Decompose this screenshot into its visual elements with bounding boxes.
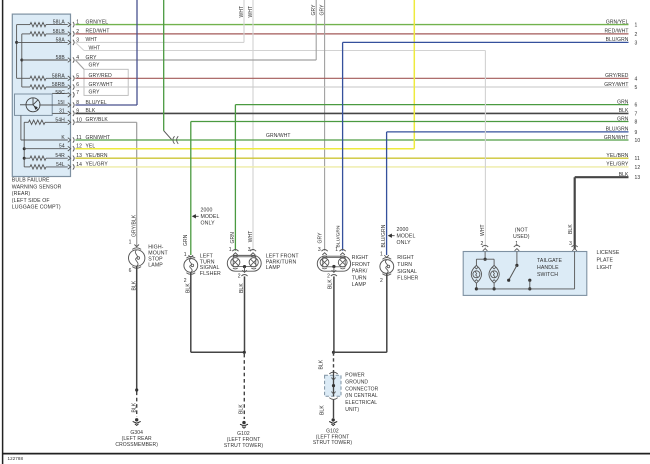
wire GRY vertical (x324.6) top to right lamp	[324, 0, 326, 251]
svg-text:BLK: BLK	[318, 359, 324, 369]
svg-text:13: 13	[635, 175, 641, 181]
svg-text:POWER: POWER	[345, 373, 365, 379]
wire 31 from transistor	[52, 112, 68, 114]
svg-text:GRY/RED: GRY/RED	[605, 73, 629, 79]
svg-text:SIGNAL: SIGNAL	[397, 269, 417, 275]
svg-text:UNIT): UNIT)	[345, 407, 359, 413]
svg-text:BLU/YEL: BLU/YEL	[86, 100, 107, 106]
wire GRY/BLK (pin10)	[75, 121, 136, 123]
svg-text:ELECTRICAL: ELECTRICAL	[345, 400, 377, 406]
resistor R-54L	[24, 166, 30, 168]
svg-text:7: 7	[76, 90, 79, 96]
svg-text:GRN: GRN	[183, 234, 189, 246]
svg-text:BLU/GRN: BLU/GRN	[381, 224, 387, 247]
svg-text:11: 11	[635, 156, 641, 162]
svg-text:BLK: BLK	[186, 283, 192, 293]
wire 58C from transistor	[52, 92, 68, 94]
wire BLK (edge 13) to license plate light	[575, 176, 629, 178]
license lamp internal wiring	[484, 252, 486, 260]
svg-text:STRUT TOWER): STRUT TOWER)	[313, 440, 352, 446]
svg-text:122788: 122788	[8, 456, 24, 461]
svg-text:BLK: BLK	[238, 404, 244, 414]
svg-text:58A: 58A	[56, 37, 66, 43]
svg-text:LAMP: LAMP	[266, 265, 281, 271]
svg-text:2: 2	[327, 274, 330, 280]
svg-text:CROSSMEMBER): CROSSMEMBER)	[115, 442, 158, 448]
wire 54	[24, 148, 68, 150]
svg-text:WHT: WHT	[86, 37, 98, 43]
resistor R-58LB	[22, 33, 30, 35]
svg-text:1: 1	[635, 23, 638, 29]
wire BLK connector to G102	[333, 400, 335, 419]
svg-text:58LA: 58LA	[53, 20, 66, 26]
svg-text:8: 8	[635, 120, 638, 126]
svg-text:2: 2	[184, 278, 187, 284]
wire BLK left flasher down	[190, 273, 192, 353]
transistor Q1	[26, 98, 40, 112]
svg-text:CONNECTOR: CONNECTOR	[345, 386, 378, 392]
wire BLU/GRN (edge 9) to right turn signal flasher	[387, 131, 629, 133]
svg-text:2000: 2000	[201, 208, 213, 214]
svg-text:7: 7	[635, 111, 638, 117]
wire YEL (pin12)	[75, 148, 414, 150]
svg-text:TAILGATE: TAILGATE	[537, 258, 563, 264]
svg-text:BLU/GRN: BLU/GRN	[606, 127, 629, 133]
wire WHT vertical to license plate light	[484, 51, 486, 250]
svg-text:MODEL: MODEL	[397, 234, 416, 240]
svg-text:TURN: TURN	[397, 262, 412, 268]
wire K from transistor bottom	[20, 115, 22, 140]
svg-text:12: 12	[635, 165, 641, 171]
svg-text:GRY: GRY	[86, 55, 98, 61]
svg-text:GRN/WHT: GRN/WHT	[86, 135, 111, 141]
wire WHT branch (to license plate light)	[75, 42, 84, 50]
svg-text:(LEFT SIDE OF: (LEFT SIDE OF	[12, 198, 50, 204]
resistor R-58LA	[17, 24, 30, 26]
wire YEL/GRY (pin14 to edge 12)	[75, 166, 628, 168]
svg-text:54H: 54H	[55, 117, 65, 123]
wire GRY/WHT (pin6 to edge 5)	[75, 86, 628, 88]
svg-text:LICENSE: LICENSE	[597, 250, 620, 256]
svg-text:GRY/WHT: GRY/WHT	[89, 82, 113, 88]
svg-text:31: 31	[59, 108, 65, 114]
wire BLK (pin9 to edge 7)	[75, 112, 628, 114]
node: bus3/54 junction	[23, 147, 26, 150]
svg-text:2: 2	[635, 32, 638, 38]
svg-text:(NOT: (NOT	[515, 227, 529, 233]
svg-text:54: 54	[59, 144, 65, 150]
resistor R-54R	[24, 157, 30, 159]
svg-text:1: 1	[335, 247, 338, 253]
svg-text:3: 3	[248, 247, 251, 253]
wire GRY/RED (pin5 to edge 4)	[75, 77, 628, 79]
svg-text:MODEL: MODEL	[201, 214, 220, 220]
wire WHT vertical to top	[243, 0, 245, 42]
svg-text:GRY: GRY	[319, 4, 325, 16]
wire BLK right flasher down	[386, 274, 388, 353]
wire BLU/YEL (pin8)	[75, 104, 137, 106]
svg-text:54R: 54R	[55, 153, 65, 159]
svg-text:(IN CENTRAL: (IN CENTRAL	[345, 393, 378, 399]
sensor internal bus 3	[23, 122, 25, 167]
svg-text:K: K	[61, 135, 65, 141]
svg-text:15I: 15I	[58, 100, 65, 106]
wire YEL vertical to top	[413, 0, 415, 149]
svg-text:RED/WHT: RED/WHT	[604, 29, 628, 35]
svg-text:YEL: YEL	[86, 144, 96, 150]
wire GRY branch label	[75, 60, 84, 69]
svg-text:YEL/GRY: YEL/GRY	[606, 162, 629, 168]
power ground connector box	[329, 372, 337, 374]
svg-text:BLK: BLK	[619, 172, 629, 178]
ground G102 (left)	[242, 421, 245, 424]
svg-text:BLU/GRN: BLU/GRN	[336, 225, 342, 247]
svg-text:FRONT: FRONT	[352, 262, 371, 268]
bulb at x=494.1	[489, 265, 499, 283]
wire BLK to power ground connector	[333, 352, 335, 371]
svg-text:RIGHT: RIGHT	[397, 255, 414, 261]
ground G304	[135, 418, 138, 421]
svg-text:PLATE: PLATE	[597, 258, 614, 264]
svg-text:GRY: GRY	[311, 4, 317, 16]
wire BLK left lamp to G102	[244, 276, 246, 352]
resistor R-58RB	[22, 86, 30, 88]
wire GRN (edge 6) to left front park/turn lamp	[235, 104, 628, 106]
wire BLK high mount to G304	[136, 266, 138, 390]
svg-text:USED): USED)	[513, 234, 530, 240]
wire RED/WHT (pin2 to edge 2)	[75, 33, 628, 35]
ground G102 (central)	[332, 418, 335, 421]
svg-text:GRN: GRN	[617, 99, 629, 105]
tailgate handle switch	[516, 252, 518, 266]
svg-text:GRY/BLK: GRY/BLK	[86, 117, 109, 123]
svg-text:PARK/: PARK/	[352, 269, 368, 275]
svg-text:ONLY: ONLY	[397, 240, 412, 246]
note: 2000 model only (left)	[193, 215, 199, 217]
wire BLU/GRN (edge 3) to right front park/turn lamp	[343, 41, 629, 43]
wire 58A	[17, 41, 68, 43]
wire 15I from transistor	[39, 104, 68, 106]
svg-text:GRN: GRN	[617, 116, 629, 122]
svg-text:(REAR): (REAR)	[12, 191, 31, 197]
wire WHT vertical (x253) top to left lamp	[252, 0, 254, 251]
svg-text:LAMP: LAMP	[148, 262, 163, 268]
svg-text:WHT: WHT	[89, 45, 101, 51]
svg-text:LAMP: LAMP	[352, 282, 367, 288]
svg-text:BLK: BLK	[619, 108, 629, 114]
svg-text:WHT: WHT	[248, 6, 254, 18]
node: bus1/58A junction	[15, 41, 18, 44]
svg-text:SWITCH: SWITCH	[537, 272, 558, 278]
transistor box	[15, 94, 53, 115]
svg-text:WHT: WHT	[248, 231, 254, 243]
svg-text:BLU/GRN: BLU/GRN	[606, 37, 629, 43]
svg-text:STRUT TOWER): STRUT TOWER)	[224, 443, 263, 449]
svg-text:BLK: BLK	[319, 405, 325, 415]
wire WHT (pin3)	[75, 41, 244, 43]
svg-text:1: 1	[380, 251, 383, 257]
svg-text:1: 1	[184, 252, 187, 258]
svg-text:TURN: TURN	[352, 275, 367, 281]
svg-text:58B: 58B	[56, 55, 66, 61]
svg-text:6: 6	[129, 268, 132, 274]
bulb at x=476.4	[471, 265, 481, 283]
svg-text:FLSHER: FLSHER	[397, 276, 418, 282]
svg-text:BLK: BLK	[131, 402, 137, 412]
svg-text:2000: 2000	[397, 227, 409, 233]
svg-text:1: 1	[229, 247, 232, 253]
wire GRY/BLK vertical to high mount stop lamp	[136, 122, 138, 246]
wire YEL/BRN (pin13 to edge 11)	[75, 157, 628, 159]
svg-text:FLSHER: FLSHER	[200, 271, 221, 277]
wire GRN/YEL (pin1 to edge 1)	[75, 24, 628, 26]
svg-text:RIGHT: RIGHT	[352, 255, 369, 261]
svg-text:58RA: 58RA	[52, 73, 65, 79]
label box pins 5-7	[84, 69, 128, 95]
wire GRY (pin4)	[75, 59, 316, 61]
wire GRN/WHT (pin11 to edge 10)	[75, 139, 628, 141]
svg-text:BLK: BLK	[86, 108, 96, 114]
svg-text:LUGGAGE COMPT): LUGGAGE COMPT)	[12, 205, 61, 211]
node: bus2/58B junction	[20, 59, 23, 62]
svg-text:GRN/WHT: GRN/WHT	[266, 133, 291, 139]
bulb failure warning sensor (rear) box	[12, 14, 70, 176]
svg-text:BULB FAILURE: BULB FAILURE	[12, 178, 50, 184]
svg-text:GROUND: GROUND	[345, 379, 368, 385]
svg-text:WHT: WHT	[480, 224, 486, 236]
svg-text:1: 1	[129, 240, 132, 246]
svg-text:GRY/WHT: GRY/WHT	[604, 82, 628, 88]
svg-text:LIGHT: LIGHT	[597, 265, 614, 271]
sensor internal bus 1	[16, 25, 18, 79]
svg-text:9: 9	[635, 130, 638, 136]
svg-text:58RB: 58RB	[52, 82, 65, 88]
svg-text:3: 3	[635, 40, 638, 46]
svg-text:2: 2	[238, 273, 241, 279]
splice connector ((	[173, 136, 175, 144]
wire 58B	[22, 59, 68, 61]
wire BLK right lamp down	[333, 276, 335, 352]
sensor internal bus 2	[21, 34, 23, 87]
svg-text:GRY/RED: GRY/RED	[89, 73, 113, 79]
svg-text:54L: 54L	[56, 162, 65, 168]
svg-text:RED/WHT: RED/WHT	[86, 29, 110, 35]
svg-text:WHT: WHT	[239, 6, 245, 18]
svg-text:5: 5	[635, 85, 638, 91]
wire GRY vertical to top	[315, 0, 317, 60]
svg-text:GRY: GRY	[89, 62, 101, 68]
node: bus3/54R junction	[23, 157, 26, 160]
svg-text:YEL/BRN: YEL/BRN	[606, 153, 628, 159]
internal ground bus to pin 3	[476, 288, 574, 290]
svg-text:2: 2	[380, 278, 383, 284]
svg-text:YEL/BRN: YEL/BRN	[86, 153, 108, 159]
svg-text:GRN/WHT: GRN/WHT	[604, 135, 629, 141]
svg-text:BLK: BLK	[327, 279, 333, 289]
wire GRN vertical from top + splice to GRN/WHT	[163, 0, 165, 131]
svg-text:58C: 58C	[55, 90, 65, 96]
svg-text:ONLY: ONLY	[201, 221, 216, 227]
svg-text:HANDLE: HANDLE	[537, 265, 559, 271]
svg-text:GRN/YEL: GRN/YEL	[86, 19, 109, 25]
svg-text:YEL/GRY: YEL/GRY	[86, 162, 109, 168]
wire GRN (edge 8) to left turn signal flasher	[191, 121, 629, 123]
svg-text:10: 10	[635, 138, 641, 144]
svg-text:WARNING SENSOR: WARNING SENSOR	[12, 184, 62, 190]
svg-text:GRN: GRN	[230, 232, 236, 244]
svg-text:BLK: BLK	[568, 224, 574, 234]
svg-text:GRY: GRY	[318, 232, 324, 244]
wire BLU/YEL vertical to top	[136, 0, 138, 105]
resistor R-58RA	[17, 77, 30, 79]
svg-text:GRY/BLK: GRY/BLK	[131, 214, 137, 237]
svg-text:58LB: 58LB	[53, 29, 66, 35]
svg-text:3: 3	[318, 247, 321, 253]
svg-text:6: 6	[635, 103, 638, 109]
svg-text:3: 3	[569, 241, 572, 247]
svg-text:GRY: GRY	[89, 90, 101, 96]
note: 2000 model only (right)	[389, 235, 395, 237]
resistor R-54H	[24, 121, 28, 123]
svg-text:GRN/YEL: GRN/YEL	[606, 19, 629, 25]
svg-text:4: 4	[635, 76, 638, 82]
